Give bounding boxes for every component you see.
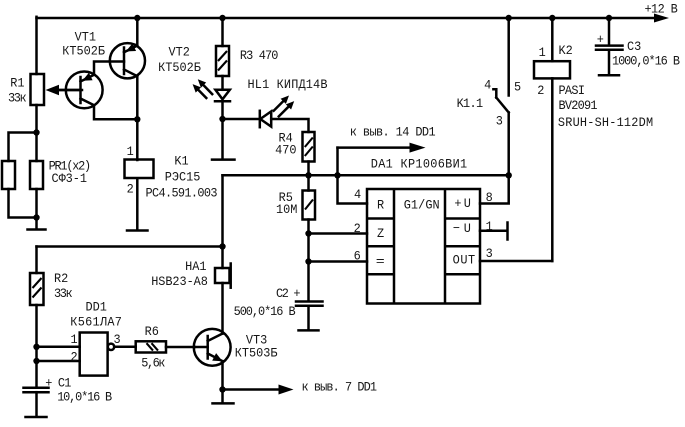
- LED HL1: [248, 78, 328, 128]
- node pin4 branch: [334, 172, 340, 178]
- photoresistor PR1 left: [2, 133, 37, 218]
- wire VT1 emitter to VT2 base: [94, 62, 124, 75]
- svg-text:+12 В: +12 В: [645, 2, 679, 17]
- wire to DD1 pin1: [37, 346, 80, 349]
- svg-text:R2: R2: [54, 272, 68, 287]
- wire DD1 out to R6: [114, 346, 136, 349]
- resistor R4: [275, 131, 314, 161]
- wire node 6 to pin6: [309, 260, 368, 263]
- resistor R6: [136, 325, 166, 371]
- svg-text:HA1: HA1: [185, 260, 206, 275]
- svg-text:DD1: DD1: [86, 300, 107, 315]
- svg-text:C2 +: C2 +: [276, 287, 301, 302]
- wire R4 to rail2: [307, 162, 310, 176]
- svg-text:2: 2: [127, 182, 134, 197]
- svg-text:BV2091: BV2091: [559, 99, 598, 114]
- node LED/HL1: [219, 116, 225, 122]
- wire R5 to node Z: [307, 220, 310, 234]
- op-amp/timer DA1 box: [354, 157, 493, 303]
- ground C1: [26, 416, 47, 419]
- buzzer HA1: [151, 247, 231, 334]
- node VT2 emitter rail: [134, 15, 140, 21]
- svg-text:1: 1: [127, 145, 134, 160]
- contact K1.1: [457, 78, 522, 128]
- wire pin3 OUT: [480, 260, 552, 263]
- resistor R2: [30, 272, 73, 305]
- wire mid rail down-left: [221, 175, 224, 246]
- svg-text:2: 2: [71, 350, 78, 365]
- wire lower rail: [37, 245, 223, 248]
- wire node to ground stub: [221, 119, 224, 158]
- wire R1 to PR1 junction: [35, 105, 38, 133]
- svg-text:1: 1: [486, 220, 493, 235]
- photoresistor PR1 right: [30, 133, 91, 218]
- svg-text:33к: 33к: [54, 287, 73, 302]
- logic gate DD1: [70, 300, 122, 376]
- wire top rail to R1: [35, 17, 38, 74]
- svg-text:к выв. 14 DD1: к выв. 14 DD1: [350, 125, 436, 140]
- transistor VT2: [110, 43, 202, 78]
- ground LED column: [212, 158, 235, 161]
- LED indicator (vertical): [193, 79, 230, 101]
- node DD1 pin2: [33, 358, 39, 364]
- wire node to HL1: [223, 118, 260, 121]
- capacitor C1: [24, 376, 113, 405]
- +12V supply arrow: [645, 2, 679, 22]
- wire pin4 branch: [338, 148, 368, 204]
- wire K2 to OUT: [551, 78, 554, 261]
- wire collectors to K1: [136, 76, 139, 160]
- wire VT3 emitter down: [221, 361, 224, 389]
- svg-text:3: 3: [496, 114, 503, 129]
- svg-text:500,0*16 В: 500,0*16 В: [234, 304, 296, 319]
- svg-text:2: 2: [537, 84, 544, 99]
- node +U branch: [506, 172, 512, 178]
- node Z: [305, 230, 311, 236]
- svg-text:VT1: VT1: [75, 30, 96, 45]
- svg-text:HL1 КИПД14В: HL1 КИПД14В: [248, 78, 328, 93]
- wire K1.1 to mid rail: [507, 113, 510, 176]
- svg-text:РС4.591.003: РС4.591.003: [146, 186, 218, 201]
- wire mid rail: [223, 174, 509, 177]
- node pin6: [305, 258, 311, 264]
- svg-text:4: 4: [484, 78, 491, 93]
- node DD1 pin1: [33, 344, 39, 350]
- svg-text:33к: 33к: [8, 91, 27, 106]
- svg-text:R: R: [377, 198, 385, 213]
- svg-text:=: =: [376, 255, 385, 270]
- svg-text:1: 1: [71, 333, 78, 348]
- wire Z to node 6: [307, 234, 310, 262]
- wire C1 to ground: [35, 392, 38, 416]
- wire K1 to ground: [136, 179, 139, 230]
- wire R6 to VT3: [166, 346, 195, 349]
- svg-text:СФ3-1: СФ3-1: [52, 171, 88, 186]
- node lower rail/HA1: [219, 243, 225, 249]
- svg-text:K2: K2: [559, 44, 573, 59]
- svg-text:K1: K1: [174, 154, 188, 169]
- resistor R5: [276, 175, 315, 219]
- svg-text:G1/GN: G1/GN: [404, 198, 440, 213]
- wire R2 to C1: [35, 305, 38, 387]
- svg-text:VT2: VT2: [169, 45, 190, 60]
- wire +12V top rail: [37, 17, 657, 20]
- wire rail to R3: [221, 18, 224, 46]
- svg-text:Z: Z: [377, 227, 385, 242]
- wire C3 to ground: [608, 50, 611, 74]
- node R3 rail: [219, 15, 225, 21]
- svg-text:5: 5: [514, 80, 521, 95]
- resistor R1 (trimmer): [8, 74, 82, 106]
- wire R3 to LED: [221, 76, 224, 90]
- svg-text:OUT: OUT: [453, 253, 476, 268]
- svg-text:+ C1: + C1: [45, 376, 71, 391]
- svg-text:КТ503Б: КТ503Б: [235, 346, 278, 361]
- ground PR1: [28, 218, 46, 230]
- wire pin8 +U: [480, 175, 509, 203]
- node R1/PR1: [33, 129, 39, 135]
- arrow to DD1 pin 7: [223, 380, 378, 395]
- svg-text:1: 1: [539, 46, 546, 61]
- capacitor C2: [234, 287, 323, 320]
- wire VT1 collector down: [94, 105, 137, 119]
- wire rail to R2: [35, 247, 38, 274]
- svg-text:SRUH-SH-112DM: SRUH-SH-112DM: [558, 115, 653, 130]
- wire rail to C3: [608, 18, 611, 44]
- svg-text:К561ЛА7: К561ЛА7: [70, 315, 122, 330]
- wire to DD1 pin2: [37, 360, 80, 363]
- wire rail to K2: [551, 18, 554, 61]
- wire HL1 to R4: [271, 119, 308, 132]
- svg-text:10,0*16 В: 10,0*16 В: [57, 390, 112, 405]
- svg-text:КТ502Б: КТ502Б: [62, 44, 105, 59]
- svg-text:2: 2: [354, 222, 361, 237]
- ground K1: [127, 229, 148, 232]
- wire C2 to ground: [307, 306, 310, 329]
- ground C3: [599, 74, 619, 77]
- svg-text:5,6к: 5,6к: [141, 356, 165, 371]
- wire VT2 emitter to rail: [136, 18, 139, 46]
- transistor VT3: [194, 329, 278, 366]
- svg-text:к выв. 7 DD1: к выв. 7 DD1: [302, 380, 378, 395]
- wire node Z to pin2: [309, 232, 368, 235]
- relay coil K1: [125, 145, 218, 201]
- svg-text:PASI: PASI: [559, 84, 586, 99]
- svg-text:РЭС15: РЭС15: [165, 170, 201, 185]
- node PR1 bottom: [33, 214, 39, 220]
- svg-text:R1: R1: [10, 76, 24, 91]
- wire LED to node: [221, 101, 224, 119]
- capacitor C3: [596, 33, 680, 69]
- node K1.1 rail: [506, 15, 512, 21]
- svg-text:470: 470: [275, 143, 296, 158]
- ground C2: [299, 329, 319, 332]
- common bar pin1: [506, 223, 509, 240]
- svg-text:4: 4: [354, 187, 361, 202]
- svg-text:3: 3: [486, 246, 493, 261]
- svg-text:1000,0*16 В: 1000,0*16 В: [612, 54, 680, 69]
- resistor R3: [216, 46, 278, 76]
- svg-text:K1.1: K1.1: [457, 96, 484, 111]
- ground VT3: [213, 390, 234, 404]
- relay coil K2: [534, 44, 653, 130]
- wire rail to K1.1: [507, 18, 510, 96]
- arrow to DD1 pin 14: [338, 125, 436, 152]
- wire node 6 to C2: [307, 262, 310, 301]
- svg-text:+: +: [597, 33, 604, 48]
- svg-text:C3: C3: [627, 39, 641, 54]
- node K2 rail: [549, 15, 555, 21]
- node VT3 emitter: [219, 386, 225, 392]
- node collectors: [134, 116, 140, 122]
- svg-text:3: 3: [114, 333, 121, 348]
- svg-text:DA1 КР1006ВИ1: DA1 КР1006ВИ1: [371, 157, 467, 172]
- transistor VT1: [58, 30, 105, 108]
- svg-text:КТ502Б: КТ502Б: [158, 60, 201, 75]
- svg-text:10М: 10М: [276, 203, 297, 218]
- svg-text:HSB23-A8: HSB23-A8: [151, 274, 208, 289]
- svg-text:6: 6: [354, 249, 361, 264]
- wire pin1 -U: [480, 229, 507, 232]
- svg-text:R6: R6: [145, 325, 159, 340]
- node C3 rail: [606, 15, 612, 21]
- node R4/R5: [305, 172, 311, 178]
- svg-text:R3 470: R3 470: [240, 48, 279, 63]
